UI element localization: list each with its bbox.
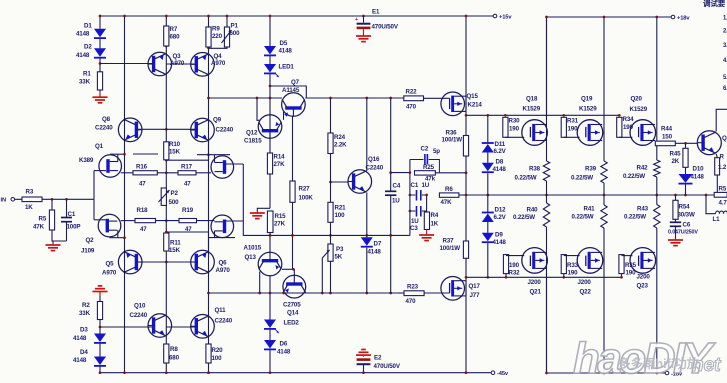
mosfet Q15 K214 xyxy=(441,92,483,116)
resistor R35 xyxy=(619,255,637,277)
wire Q10-Q11 link xyxy=(166,326,197,328)
wire driver column mid xyxy=(465,156,468,241)
svg-text:6.: 6. xyxy=(723,86,727,92)
svg-text:R43: R43 xyxy=(637,206,649,213)
diode D2 xyxy=(76,44,106,60)
svg-text:R5: R5 xyxy=(39,216,47,223)
svg-text:R18: R18 xyxy=(137,207,149,214)
LED LED1 xyxy=(264,64,294,78)
svg-text:C2240: C2240 xyxy=(95,125,113,132)
svg-text:D8: D8 xyxy=(496,159,504,166)
svg-text:D2: D2 xyxy=(84,44,92,51)
svg-text:R7: R7 xyxy=(170,26,178,33)
svg-text:D3: D3 xyxy=(80,327,88,334)
svg-text:R4: R4 xyxy=(431,212,439,219)
svg-text:R9: R9 xyxy=(212,26,220,33)
resistor R22 xyxy=(404,89,424,111)
wire C4-R25 link xyxy=(391,172,410,174)
wire D9-bus xyxy=(486,243,489,278)
svg-text:R19: R19 xyxy=(182,207,194,214)
wire Q12 base L xyxy=(257,98,260,120)
capacitor E2 xyxy=(357,355,401,375)
wire Q2b gate stub xyxy=(225,220,244,222)
diode D7 xyxy=(361,237,382,255)
capacitor C1 input xyxy=(61,211,80,231)
svg-text:R54: R54 xyxy=(679,204,691,211)
text tuning title xyxy=(703,0,726,8)
wire R34-Q20 gate xyxy=(618,114,632,137)
resistor R23 xyxy=(404,284,424,306)
svg-text:4.: 4. xyxy=(723,58,727,64)
svg-text:Q1: Q1 xyxy=(95,143,104,150)
resistor R5 xyxy=(33,210,55,231)
svg-text:2K: 2K xyxy=(672,158,680,165)
wire bus y98 left xyxy=(209,97,283,100)
resistor R30 xyxy=(503,117,520,137)
svg-text:1U: 1U xyxy=(422,182,430,189)
svg-text:4148: 4148 xyxy=(76,31,90,38)
wire Q4-Q9-Q6-Q11 column x208 xyxy=(207,15,210,374)
resistor R8 xyxy=(164,344,180,363)
svg-text:A970: A970 xyxy=(170,60,185,67)
capacitor C6 xyxy=(668,222,698,236)
wire R24-R21 xyxy=(330,154,332,203)
wire bottom gate bus xyxy=(466,276,622,279)
svg-text:15K: 15K xyxy=(169,247,181,254)
wire output bus xyxy=(466,194,719,197)
wire gates column x243 xyxy=(243,164,410,235)
svg-text:500: 500 xyxy=(169,199,180,206)
svg-text:6.2V: 6.2V xyxy=(494,148,507,155)
transistor Q5 xyxy=(102,250,142,276)
diode D10 xyxy=(679,166,705,184)
wire column2 mid xyxy=(603,183,605,205)
svg-text:Q18: Q18 xyxy=(526,96,538,103)
diode D3 xyxy=(73,327,106,343)
svg-text:4148: 4148 xyxy=(279,48,293,55)
svg-text:4148: 4148 xyxy=(691,174,705,181)
wire R45 lead xyxy=(685,143,687,148)
wire D12-D9 xyxy=(487,222,489,233)
wire R4-ground xyxy=(426,230,428,233)
wire D6-rail xyxy=(269,350,272,374)
resistor R15 xyxy=(267,211,286,233)
node -45v terminal xyxy=(491,371,509,377)
svg-text:R38: R38 xyxy=(529,166,541,173)
svg-text:K1529: K1529 xyxy=(579,106,597,113)
svg-text:Q22: Q22 xyxy=(580,289,592,296)
svg-text:6.2V: 6.2V xyxy=(494,214,507,221)
wire LED1 down xyxy=(269,74,272,237)
mosfet Q20 K1529 xyxy=(630,96,656,146)
wire E1-gnd xyxy=(363,29,365,34)
trimmer P3 xyxy=(328,244,344,261)
svg-text:A970: A970 xyxy=(216,267,231,274)
resistor R27 xyxy=(290,181,313,202)
svg-text:K1529: K1529 xyxy=(630,106,648,113)
svg-text:K1529: K1529 xyxy=(523,106,541,113)
svg-text:C6: C6 xyxy=(683,222,691,229)
wire C1in lead xyxy=(66,199,68,217)
wire R35-Q23 gate xyxy=(620,256,632,279)
svg-text:A1145: A1145 xyxy=(282,87,300,94)
wire Q1 drain xyxy=(110,153,125,155)
svg-text:Q5: Q5 xyxy=(106,261,115,268)
resistor R42 xyxy=(623,160,660,180)
wire D12 lead xyxy=(487,195,489,213)
svg-text:27K: 27K xyxy=(274,221,286,228)
svg-text:R14: R14 xyxy=(274,154,286,161)
wire column1 mid xyxy=(546,181,548,203)
capacitor C2 xyxy=(410,146,440,173)
wire R24 column xyxy=(329,98,332,183)
wire Q3 base line xyxy=(100,63,154,65)
svg-text:R21: R21 xyxy=(335,205,347,212)
svg-text:190: 190 xyxy=(568,270,579,277)
svg-text:0.047U/250V: 0.047U/250V xyxy=(668,230,698,236)
resistor R19 xyxy=(179,207,197,233)
wire Q14 top lead xyxy=(293,269,295,276)
transistor Q12 xyxy=(244,115,282,145)
wire R17 right lead xyxy=(196,172,211,174)
wire Q1b drain tangent xyxy=(197,154,230,156)
wire Q7 emitter link xyxy=(270,86,306,98)
wire D11-D8 xyxy=(487,153,489,163)
wire P3 wiper xyxy=(321,250,330,295)
svg-text:D11: D11 xyxy=(495,141,506,148)
svg-text:4148: 4148 xyxy=(493,166,507,173)
wire Q13 collector up xyxy=(269,233,271,253)
svg-text:J200: J200 xyxy=(528,279,542,286)
diode D9 xyxy=(482,232,507,247)
wire R32-Q21 gate xyxy=(506,256,524,278)
svg-text:D9: D9 xyxy=(495,232,503,239)
svg-text:K214: K214 xyxy=(468,102,483,109)
svg-text:C1815: C1815 xyxy=(244,138,262,145)
wire D1 column top xyxy=(99,15,102,29)
wire R27 down xyxy=(291,202,295,270)
resistor R3 xyxy=(22,189,42,212)
resistor R2 xyxy=(79,302,103,320)
svg-text:4148: 4148 xyxy=(368,249,382,256)
svg-text:47K: 47K xyxy=(33,224,45,231)
wire R27-Q13 link xyxy=(282,268,293,270)
svg-text:L1: L1 xyxy=(713,216,721,223)
svg-text:5p: 5p xyxy=(433,148,440,155)
wire column1 upper xyxy=(545,16,548,161)
resistor R21 xyxy=(328,202,346,222)
wire R1-ground xyxy=(99,90,101,93)
svg-text:E2: E2 xyxy=(374,355,382,362)
wire column2 upper xyxy=(603,16,606,161)
resistor R24 xyxy=(328,133,347,154)
svg-text:100K: 100K xyxy=(299,195,314,202)
svg-text:4.7: 4.7 xyxy=(719,200,727,207)
wire Q8-Q5 column x124 xyxy=(123,15,126,374)
svg-text:0.22/5W: 0.22/5W xyxy=(513,214,535,221)
svg-text:2.2K: 2.2K xyxy=(334,142,347,149)
svg-text:R36: R36 xyxy=(446,130,458,137)
svg-text:R1: R1 xyxy=(83,71,91,78)
svg-text:R45: R45 xyxy=(670,151,682,158)
wire R2-D3 xyxy=(99,320,102,334)
svg-text:J77: J77 xyxy=(470,292,481,299)
wire Q13 lower lead xyxy=(258,272,261,295)
wire C1in bottom xyxy=(66,222,68,241)
svg-text:Q15: Q15 xyxy=(467,93,479,100)
svg-text:4148: 4148 xyxy=(277,349,291,356)
wire R30-Q18 gate xyxy=(505,136,524,138)
wire caps left column xyxy=(409,160,412,236)
capacitor C4 xyxy=(385,183,401,205)
wire vas-to-R23 bus xyxy=(209,292,405,295)
svg-text:5.: 5. xyxy=(723,75,727,81)
svg-text:470: 470 xyxy=(406,298,417,305)
text note 2 xyxy=(723,29,727,35)
diode D4 xyxy=(73,349,106,366)
svg-text:R3: R3 xyxy=(26,189,34,196)
svg-text:R40: R40 xyxy=(527,207,539,214)
wire Q1b gate stub xyxy=(225,163,244,165)
wire D10-bus xyxy=(685,184,687,195)
wire Q7-R27 xyxy=(292,116,294,181)
resistor R45 xyxy=(670,148,689,167)
resistor R18 xyxy=(135,207,156,233)
mosfet Q17 J77 xyxy=(441,277,481,301)
svg-text:R39: R39 xyxy=(585,166,597,173)
svg-text:220: 220 xyxy=(212,33,223,40)
wire input node to gates xyxy=(93,171,95,220)
wire Q16 emitter down xyxy=(366,193,368,238)
svg-text:R37: R37 xyxy=(443,238,455,245)
svg-text:100: 100 xyxy=(335,212,346,219)
wire Q2 drain xyxy=(110,153,126,239)
svg-text:D12: D12 xyxy=(495,207,507,214)
svg-text:C2705: C2705 xyxy=(283,302,301,309)
wire column1 lower xyxy=(545,227,548,374)
svg-text:Q21: Q21 xyxy=(530,289,542,296)
svg-text:C1: C1 xyxy=(411,182,419,189)
resistor R55 4.7 xyxy=(714,186,727,207)
svg-text:E1: E1 xyxy=(372,9,380,16)
svg-text:P1: P1 xyxy=(231,23,239,30)
wire R16 left lead xyxy=(121,172,133,174)
svg-text:1.2: 1.2 xyxy=(718,164,727,171)
ground below R1 xyxy=(93,93,108,103)
svg-text:R27: R27 xyxy=(299,186,311,193)
resistor R25 xyxy=(415,164,436,183)
resistor R32 xyxy=(503,255,520,277)
transistor Q14 xyxy=(283,275,306,316)
wire Q10 base line xyxy=(100,326,154,328)
text note 1 xyxy=(723,16,727,22)
transistor Q4 xyxy=(191,53,226,77)
svg-text:3.: 3. xyxy=(723,43,727,49)
diode D1 xyxy=(76,23,106,39)
svg-text:470: 470 xyxy=(406,104,417,111)
svg-text:0.22/5W: 0.22/5W xyxy=(624,214,646,221)
svg-text:Q17: Q17 xyxy=(469,283,481,290)
svg-text:1.: 1. xyxy=(723,16,727,22)
wire right bank +18v rail xyxy=(547,17,672,120)
svg-text:100/1W: 100/1W xyxy=(440,245,461,252)
wire R54-C6 xyxy=(675,219,677,222)
wire LED2 column top xyxy=(269,276,272,320)
transistor Q13 xyxy=(244,245,282,276)
transistor Q3 xyxy=(148,52,185,76)
svg-text:2.: 2. xyxy=(723,29,727,35)
mosfet Q23 J200 xyxy=(630,248,656,290)
svg-text:R10: R10 xyxy=(169,141,181,148)
wire Q3-Q4 link xyxy=(166,63,197,65)
node +15v terminal xyxy=(493,14,512,20)
svg-text:C2240: C2240 xyxy=(366,165,384,172)
resistor R44 xyxy=(655,126,675,146)
wire mid ground L xyxy=(257,208,270,211)
transistor Q2b J109 xyxy=(211,215,234,238)
capacitor E1 xyxy=(355,9,399,31)
wire D8-output xyxy=(486,173,489,196)
svg-text:C2240: C2240 xyxy=(130,312,148,319)
resistor R33 xyxy=(561,255,578,277)
svg-text:J200: J200 xyxy=(637,274,651,281)
wire Q24 emitter resistor xyxy=(715,154,727,176)
wire Q2 gate stub xyxy=(94,219,106,221)
wire R45-D10 xyxy=(685,167,687,174)
svg-text:R22: R22 xyxy=(406,89,418,96)
svg-text:Q11: Q11 xyxy=(215,307,227,314)
wire top gate bus xyxy=(466,114,619,117)
text note 5 xyxy=(723,75,727,81)
svg-text:C4: C4 xyxy=(393,183,401,190)
wire R23 left lead xyxy=(399,292,405,294)
svg-text:33K: 33K xyxy=(79,310,91,317)
svg-text:C3: C3 xyxy=(410,225,418,232)
svg-text:Q6: Q6 xyxy=(219,260,228,267)
wire Q8-Q9 base line xyxy=(136,128,196,130)
svg-text:A970: A970 xyxy=(102,270,117,277)
wire D11 lead xyxy=(487,115,489,143)
resistor R9 xyxy=(206,26,223,48)
wire P1 top to rail xyxy=(226,15,229,27)
svg-text:K389: K389 xyxy=(79,157,94,164)
svg-text:150: 150 xyxy=(662,134,673,141)
resistor R40 xyxy=(513,203,550,227)
wire R16-R17 link xyxy=(157,172,178,174)
svg-text:Q14: Q14 xyxy=(287,310,299,317)
wire caps right column xyxy=(425,194,428,212)
wire C4 column top xyxy=(389,98,392,191)
wire IN-R3 xyxy=(15,198,22,200)
svg-text:Q19: Q19 xyxy=(581,96,593,103)
svg-text:470U/50V: 470U/50V xyxy=(374,363,401,370)
wire drain stub segment xyxy=(133,153,158,155)
resistor R10 xyxy=(164,141,181,160)
resistor R36 xyxy=(442,130,469,157)
svg-text:100P: 100P xyxy=(67,224,81,231)
svg-text:R15: R15 xyxy=(275,213,287,220)
transistor Q11 xyxy=(191,307,233,338)
svg-text:R20: R20 xyxy=(212,347,224,354)
wire Q16 base xyxy=(331,181,349,183)
svg-text:Q10: Q10 xyxy=(134,303,146,310)
node -18v terminal xyxy=(665,371,683,377)
svg-text:30/3W: 30/3W xyxy=(678,212,695,219)
svg-text:C2240: C2240 xyxy=(215,318,233,325)
wire R22-Q15 gate xyxy=(424,97,450,99)
svg-text:1K: 1K xyxy=(431,221,439,228)
text note 6 xyxy=(723,86,727,92)
wire gnd stem input xyxy=(52,241,54,244)
wire R33-Q22 gate xyxy=(564,256,580,278)
svg-text:680: 680 xyxy=(169,355,180,362)
wire Q9 emitter to tail xyxy=(166,142,208,160)
svg-text:调试要: 调试要 xyxy=(703,0,726,8)
wire Q24 collector up xyxy=(716,109,727,131)
zener D12 xyxy=(482,207,507,223)
svg-text:R5: R5 xyxy=(719,186,727,193)
svg-text:A1015: A1015 xyxy=(244,245,262,252)
svg-text:-45v: -45v xyxy=(497,371,509,377)
resistor R41 xyxy=(572,205,608,228)
wire R44-Q24 base xyxy=(675,142,697,145)
svg-text:Q12: Q12 xyxy=(246,130,258,137)
svg-text:27K: 27K xyxy=(274,161,286,168)
watermark haoDIY xyxy=(573,334,721,383)
diode D6 xyxy=(264,340,291,356)
capacitor C1 xyxy=(410,182,430,201)
wire driver column top xyxy=(465,15,468,136)
resistor R20 xyxy=(206,344,223,363)
wire right bank -18v rail xyxy=(547,273,666,373)
svg-text:0.22/5W: 0.22/5W xyxy=(571,175,593,182)
wire Q2b drain tangent xyxy=(209,237,236,239)
node IN terminal xyxy=(1,198,15,204)
ground input xyxy=(46,244,61,251)
transistor Q1b K389 xyxy=(211,155,234,179)
resistor R34 xyxy=(617,116,634,137)
svg-text:470U/50V: 470U/50V xyxy=(372,24,399,31)
svg-text:R25: R25 xyxy=(423,164,435,171)
svg-text:47: 47 xyxy=(140,226,147,233)
resistor R54 xyxy=(673,200,695,219)
wire -45v bottom rail xyxy=(100,372,491,374)
svg-text:P3: P3 xyxy=(336,246,344,253)
svg-text:R42: R42 xyxy=(637,165,649,172)
wire VAS node line xyxy=(269,234,392,237)
svg-text:D7: D7 xyxy=(374,241,382,248)
resistor R31 xyxy=(561,117,578,137)
wire driver column bottom xyxy=(465,258,468,374)
wire R5 lead xyxy=(51,199,53,210)
svg-text:R31: R31 xyxy=(567,118,579,125)
svg-text:0.22/5W: 0.22/5W xyxy=(623,173,645,180)
wire R21-P3 xyxy=(330,222,332,244)
text note 4 xyxy=(723,58,727,64)
wire C6-ground xyxy=(675,226,677,238)
ground above E2 xyxy=(356,350,371,357)
svg-text:5K: 5K xyxy=(335,254,343,261)
svg-text:Q23: Q23 xyxy=(637,283,649,290)
svg-text:R41: R41 xyxy=(584,206,596,213)
svg-text:R8: R8 xyxy=(170,346,178,353)
svg-text:0.22/5W: 0.22/5W xyxy=(572,214,594,221)
resistor R4 xyxy=(424,212,439,230)
svg-text:15K: 15K xyxy=(169,149,181,156)
transistor Q1 K389 xyxy=(79,143,121,177)
resistor R16 xyxy=(133,164,157,188)
wire R-emitter to bus xyxy=(716,175,718,195)
